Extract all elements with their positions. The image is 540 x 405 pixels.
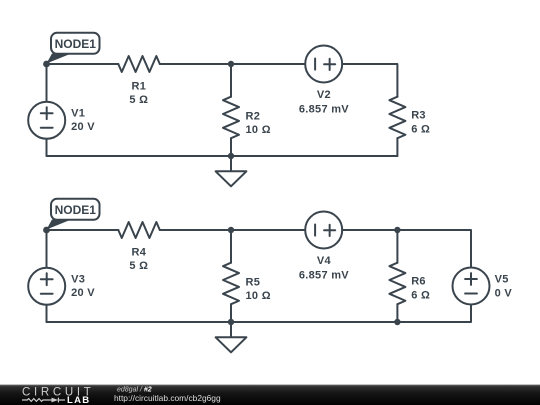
resistor R6 <box>389 263 430 305</box>
wire V2 to top-right corner and down to R3 <box>342 64 397 97</box>
junction bottom of R5 <box>228 319 234 325</box>
voltage source V5 <box>453 268 513 305</box>
svg-text:0 V: 0 V <box>495 288 513 300</box>
resistor R4 <box>118 222 160 272</box>
svg-text:6 Ω: 6 Ω <box>411 289 430 301</box>
wire right branch top (junction to R6) <box>396 230 398 263</box>
resistor R5 <box>223 263 271 305</box>
svg-text:20 V: 20 V <box>71 287 95 299</box>
wire top-left horizontal (node to R4) <box>47 229 119 231</box>
junction top of R5 <box>228 227 234 233</box>
ground (bottom circuit) <box>216 322 247 352</box>
svg-text:http://circuitlab.com/cb2g6gg: http://circuitlab.com/cb2g6gg <box>114 393 221 403</box>
resistor R2 <box>223 97 271 139</box>
voltage source V4 <box>299 212 349 282</box>
svg-text:V3: V3 <box>71 273 85 285</box>
svg-text:10 Ω: 10 Ω <box>246 124 271 136</box>
wire top-left horizontal (node to R1) <box>47 63 119 65</box>
wire V3 to bottom rail <box>46 305 48 322</box>
voltage source V3 <box>28 268 95 305</box>
junction bottom of R6 <box>394 319 400 325</box>
junction bottom of R2 <box>228 153 234 159</box>
wire R5 to bottom rail <box>230 304 232 322</box>
junction top of R6 <box>394 227 400 233</box>
svg-text:V2: V2 <box>317 89 331 101</box>
wire R1 to V2 <box>160 63 305 65</box>
svg-text:20 V: 20 V <box>71 121 95 133</box>
svg-text:NODE1: NODE1 <box>55 37 97 51</box>
resistor R3 <box>389 97 430 139</box>
wire middle branch top (junction to R5) <box>230 230 232 263</box>
svg-text:NODE1: NODE1 <box>55 203 97 217</box>
svg-text:6.857 mV: 6.857 mV <box>299 103 349 115</box>
wire R6 to bottom rail <box>396 304 398 322</box>
wire R2 to bottom rail <box>230 138 232 156</box>
svg-text:6 Ω: 6 Ω <box>411 123 430 135</box>
svg-text:V4: V4 <box>317 255 332 267</box>
node NODE1 (bottom) <box>43 199 99 234</box>
svg-text:R6: R6 <box>411 275 426 287</box>
CircuitLab logo symbol (resistor + diode) <box>22 398 65 403</box>
wire middle branch top (junction to R2) <box>230 64 232 97</box>
svg-text:V1: V1 <box>71 107 85 119</box>
node NODE1 (top) <box>43 33 99 68</box>
wire left rail down from node to V1 <box>46 64 48 102</box>
svg-text:5 Ω: 5 Ω <box>129 94 148 106</box>
junction top of R2 <box>228 61 234 67</box>
wire R4 to V4 <box>160 229 305 231</box>
ground (top circuit) <box>216 156 247 186</box>
wire V1 to bottom rail <box>46 139 48 156</box>
voltage source V2 <box>299 46 349 116</box>
svg-text:R3: R3 <box>411 109 426 121</box>
svg-text:R5: R5 <box>246 276 261 288</box>
svg-text:5 Ω: 5 Ω <box>129 260 148 272</box>
voltage source V1 <box>28 102 95 139</box>
resistor R1 <box>118 56 160 106</box>
svg-text:10 Ω: 10 Ω <box>246 290 271 302</box>
wire bottom rail (top circuit) <box>47 155 398 157</box>
footer bar <box>0 385 540 405</box>
svg-text:6.857 mV: 6.857 mV <box>299 269 349 281</box>
wire V4 to top-right corner and down to V5 <box>342 230 471 268</box>
CircuitLab logo wordmark <box>22 386 95 398</box>
svg-text:V5: V5 <box>495 273 509 285</box>
svg-text:R4: R4 <box>131 247 146 259</box>
wire R3 down to bottom-right corner <box>396 138 398 156</box>
svg-text:LAB: LAB <box>67 395 90 405</box>
svg-text:R2: R2 <box>246 110 261 122</box>
wire left rail down from node to V3 <box>46 230 48 268</box>
svg-text:R1: R1 <box>131 81 146 93</box>
wire V5 to bottom rail <box>47 305 472 323</box>
